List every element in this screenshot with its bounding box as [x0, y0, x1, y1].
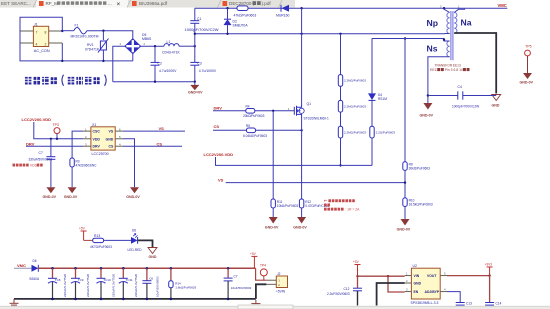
svg-text:10kΩ/PuF0603: 10kΩ/PuF0603	[277, 204, 299, 208]
wire R11 to ground	[272, 208, 274, 217]
svg-text:GND: GND	[106, 137, 114, 141]
svg-text:TC9: TC9	[78, 278, 84, 282]
wire R10 to ground	[404, 207, 406, 220]
capacitor C14	[485, 303, 494, 306]
svg-text:CS: CS	[157, 141, 163, 146]
wire clamp top rail	[195, 7, 508, 9]
junction C7b bottom	[227, 298, 230, 301]
svg-text:GND-0V: GND-0V	[420, 114, 434, 118]
wire VOUT down to C14	[489, 276, 491, 303]
junction VOUT node	[488, 274, 490, 276]
ground GND-0V under R11	[269, 217, 278, 224]
svg-text:220uF/6.3V/T520: 220uF/6.3V/T520	[86, 273, 90, 297]
junction C7 on VDD wire	[50, 138, 52, 140]
resistor R13	[93, 238, 104, 242]
svg-text:: 1R = 2A: : 1R = 2A	[345, 208, 360, 212]
svg-text:R5: R5	[246, 124, 250, 128]
test point TP5	[525, 44, 532, 73]
svg-text:30kΩ/PuF0603: 30kΩ/PuF0603	[409, 167, 431, 171]
junction clamp rail / drain riser	[300, 7, 302, 9]
junction TC10	[100, 267, 103, 270]
SECTION: bottomright	[327, 260, 502, 305]
pin 8 stub	[49, 30, 63, 32]
junction Ns return / C4	[427, 94, 429, 96]
junction R14 bottom	[170, 298, 173, 301]
resistor R1 on clamp rail	[237, 6, 248, 11]
svg-text:16.5kΩ/PuF0603: 16.5kΩ/PuF0603	[409, 203, 433, 207]
svg-text:R4: R4	[246, 105, 250, 109]
tab 4 pdf icon	[223, 1, 228, 6]
svg-text:).pdf: ).pdf	[262, 1, 272, 6]
junction source column	[300, 129, 302, 131]
svg-text:4.7u/1000V: 4.7u/1000V	[159, 69, 177, 73]
ground GND (open) under LED	[148, 248, 157, 254]
ground GND-0V under C7	[46, 187, 55, 193]
svg-text:220uF/6.3V/T520: 220uF/6.3V/T520	[112, 273, 116, 297]
diode D4 RS1M	[368, 93, 376, 100]
SECTION: controller	[13, 117, 186, 199]
TVS diode D2 SMBJ70A	[224, 8, 232, 34]
svg-text:RF_M: RF_M	[46, 1, 59, 6]
junction R14	[170, 267, 173, 270]
svg-text:8: 8	[45, 31, 47, 35]
junction bleeder to VDD rail	[339, 164, 341, 166]
svg-text:220uF/6.3V/T520: 220uF/6.3V/T520	[63, 273, 67, 297]
wire ground bus (black)	[14, 298, 256, 300]
wire VS rail	[226, 182, 405, 184]
capacitor TC10	[97, 268, 116, 299]
test point TP3	[53, 123, 61, 139]
svg-text:VDD: VDD	[30, 164, 38, 168]
junction TC9 bottom	[74, 298, 77, 301]
svg-text:GND-0V: GND-0V	[126, 195, 140, 199]
svg-text:2.2uF/50V/0603: 2.2uF/50V/0603	[327, 292, 350, 296]
resistor R12 sense	[299, 199, 303, 208]
svg-text:J2: J2	[277, 272, 281, 276]
wire drain rail to transformer primary	[195, 33, 445, 35]
wire GND down	[123, 139, 135, 188]
wire BYP to C13	[447, 292, 460, 303]
wire R3 bottom	[71, 167, 73, 187]
svg-text:GND-0V: GND-0V	[64, 195, 78, 199]
resistor R2a	[338, 75, 342, 87]
svg-text:C14: C14	[496, 301, 502, 305]
junction clamp rail / D2	[226, 7, 228, 9]
power port +3V3	[487, 267, 493, 276]
svg-text:330uF/50V/0603: 330uF/50V/0603	[29, 158, 53, 162]
svg-text:+5V: +5V	[250, 252, 257, 256]
IC X1 body	[91, 127, 115, 150]
svg-text:2.2MΩ/PuF0603: 2.2MΩ/PuF0603	[344, 130, 366, 134]
capacitor C13	[456, 303, 465, 306]
wire aux rectifier column	[371, 39, 373, 166]
junction HV node at C1 column	[194, 45, 196, 47]
wire CS to R5	[213, 129, 247, 131]
svg-text:2.2Ω/PuF0603: 2.2Ω/PuF0603	[376, 130, 396, 134]
junction +5V node	[356, 275, 358, 277]
SECTION: windowedge	[0, 305, 550, 309]
LED D6	[131, 234, 138, 244]
bridge rectifier D5 diamond	[125, 39, 141, 54]
tab 2 pdf icon	[39, 1, 44, 6]
svg-text:VS: VS	[109, 130, 114, 134]
svg-text:VIN: VIN	[414, 274, 420, 278]
wire Np bottom	[445, 33, 450, 35]
svg-text:47kΩ/0603/NC: 47kΩ/0603/NC	[76, 164, 98, 168]
svg-text:CD43-471K: CD43-471K	[162, 51, 180, 55]
diode D6 B340A	[32, 265, 39, 272]
svg-text:GND: GND	[414, 282, 422, 286]
tab separators	[33, 0, 282, 8]
svg-text:4.7u/1000V: 4.7u/1000V	[199, 69, 217, 73]
SECTION: clamp	[185, 3, 508, 103]
resistor R2c	[338, 126, 342, 138]
wire R4 to gate	[255, 110, 294, 112]
resistor R11	[271, 199, 275, 208]
ground GND-0V under Ns return	[423, 103, 432, 110]
transformer core	[451, 11, 453, 60]
test point TP4	[260, 263, 267, 280]
resistor R2b	[338, 100, 342, 112]
IC X1 pin stubs	[83, 131, 123, 146]
svg-text:F1: F1	[75, 23, 79, 27]
junction Ns top	[443, 39, 445, 41]
wire bridge + output to L1	[141, 45, 164, 47]
wire CSC to R3	[72, 131, 83, 158]
wire negative rail	[113, 81, 195, 83]
svg-text:Q1: Q1	[307, 102, 312, 106]
junction TC11	[122, 267, 125, 270]
SECTION: topleft	[20, 17, 217, 94]
svg-text:C13: C13	[466, 301, 472, 305]
junction HV wire at C2 column	[154, 45, 156, 47]
wire U2 GND thick	[377, 283, 405, 306]
power port +5V (regulator)	[355, 265, 361, 277]
ground GND-0V under X1	[130, 187, 139, 193]
wire ground bus to J2-2	[256, 284, 267, 299]
SECTION: bottomleft	[10, 227, 288, 307]
resistor R9	[403, 162, 407, 171]
svg-text:SPX3819M5-L-3.3: SPX3819M5-L-3.3	[411, 301, 439, 305]
wire R5 to source column	[256, 129, 302, 131]
junction negative rail at C3	[194, 81, 196, 83]
svg-text:LED-RED: LED-RED	[128, 248, 143, 252]
svg-text:C3: C3	[197, 61, 201, 65]
note 可能的靠近VDD引脚 drawn as blobs	[13, 164, 43, 168]
svg-text:D6: D6	[132, 228, 136, 232]
junction TP3 on VDD wire	[56, 138, 58, 140]
wire C4 row	[428, 95, 496, 97]
svg-text:STD2DN0LM60-1: STD2DN0LM60-1	[304, 117, 330, 121]
wire RV1 top	[102, 31, 104, 40]
svg-text:C7: C7	[234, 274, 238, 278]
svg-text:C6: C6	[149, 277, 153, 281]
capacitor C4	[458, 91, 463, 99]
svg-text:C1: C1	[197, 17, 201, 21]
svg-text:TP4: TP4	[260, 263, 266, 267]
svg-text:×: ×	[117, 1, 121, 8]
svg-text:C2: C2	[158, 61, 162, 65]
junction C7b	[227, 267, 230, 270]
svg-text:+5VIN: +5VIN	[276, 289, 286, 293]
wire CS out	[123, 145, 182, 147]
pin stub J2-2	[266, 283, 276, 285]
MOSFET Q1	[294, 103, 304, 118]
ground GND-0V under R3	[68, 187, 77, 193]
earth ground at bus right	[251, 300, 260, 307]
junction TC9	[74, 267, 77, 270]
svg-text:VS: VS	[159, 126, 165, 131]
svg-text:GND-0V: GND-0V	[265, 226, 279, 230]
svg-text:CS: CS	[214, 124, 220, 129]
junction drain rail / bleeder column	[339, 33, 341, 35]
wire EN branch	[388, 276, 405, 292]
svg-text:+3V3: +3V3	[485, 263, 493, 267]
svg-text:TC8: TC8	[55, 278, 61, 282]
svg-text:2.2MΩ/PuF0603: 2.2MΩ/PuF0603	[344, 104, 366, 108]
svg-text:LCC2V200-VDD: LCC2V200-VDD	[204, 152, 234, 157]
title 强电接口（载波接口） drawn as glyph blocks	[25, 75, 107, 86]
svg-text:RS1M: RS1M	[378, 97, 387, 101]
wire DRV to R4	[213, 110, 246, 112]
capacitor C12	[353, 276, 362, 305]
resistor R3	[70, 158, 74, 167]
svg-text:TP5: TP5	[525, 44, 531, 48]
inductor L1	[164, 44, 179, 47]
ground GND (open)	[492, 95, 501, 101]
resistor R5	[247, 128, 256, 133]
wire Np top	[444, 8, 450, 12]
svg-text:VDD: VDD	[93, 137, 101, 141]
junction TC8	[51, 267, 54, 270]
pin stub J2-1	[266, 279, 276, 281]
svg-text:AC_CON: AC_CON	[34, 49, 50, 53]
svg-text:MB6S: MB6S	[142, 37, 152, 41]
svg-text:GND-0V: GND-0V	[397, 228, 411, 232]
status box	[238, 305, 293, 309]
power port +5V (LED)	[81, 231, 87, 240]
resistor R14	[169, 268, 197, 299]
wire bridge bottom stub	[132, 54, 134, 61]
regulator U2 body	[411, 268, 440, 299]
wire VS out	[123, 130, 185, 132]
svg-text:+5V: +5V	[353, 260, 360, 264]
wire R12 to ground	[301, 208, 303, 217]
wire bleeder column	[340, 34, 342, 166]
junction EN branch	[387, 275, 389, 277]
junction at RV1 bottom	[102, 60, 104, 62]
svg-text:LCC25700: LCC25700	[92, 152, 109, 156]
svg-text:220uF/6.3V/T520: 220uF/6.3V/T520	[134, 273, 138, 297]
svg-text:DRV: DRV	[26, 141, 35, 146]
wire LED to GND thick	[138, 240, 153, 247]
junction at connector top right	[61, 30, 63, 32]
pin 4 stub	[20, 42, 33, 44]
junction C6 bottom	[146, 298, 149, 301]
capacitor C2	[151, 46, 160, 81]
svg-text:10uF/25V/0603: 10uF/25V/0603	[156, 276, 160, 297]
tab 3 pdf icon	[132, 1, 137, 6]
svg-text:GND-0V: GND-0V	[293, 226, 307, 230]
ground GND-0V under TP5	[523, 73, 532, 79]
wire aux column joins VDD rail	[371, 164, 373, 165]
junction negative rail at C2	[154, 81, 156, 83]
SECTION: tabbar	[0, 0, 295, 8]
wire R13 to LED	[104, 239, 131, 241]
svg-text:TP3: TP3	[53, 123, 59, 127]
wire VDD rail	[216, 157, 373, 165]
svg-text:07D471K: 07D471K	[85, 47, 100, 51]
junction divider tap	[404, 181, 406, 183]
svg-text:GND: GND	[149, 255, 157, 259]
junction C6	[146, 267, 149, 270]
wire bridge minus to rail	[113, 46, 125, 81]
wire +5V to R13	[84, 239, 93, 241]
junction TC11 bottom	[122, 298, 125, 301]
wire Na top to VMC rail	[454, 8, 464, 12]
wire AC bottom rail to bridge	[62, 60, 133, 62]
junction drain rail at D2	[226, 33, 228, 35]
wire AC loop around connector	[20, 17, 62, 61]
svg-text:TC11: TC11	[126, 278, 133, 282]
svg-text:TRANSFOR EE13: TRANSFOR EE13	[435, 63, 461, 67]
earth ground at bus left	[10, 299, 19, 307]
svg-text:VS: VS	[218, 178, 224, 183]
wire red bus corner to J2-1	[256, 268, 267, 280]
svg-text:10uF/50V/0603: 10uF/50V/0603	[231, 286, 252, 290]
power port +5V (bus)	[251, 256, 257, 268]
resistor R8	[370, 126, 374, 138]
svg-text:MUR160: MUR160	[276, 13, 289, 17]
wire L1 to C1 column	[179, 45, 195, 47]
junction drain rail / drain riser	[300, 33, 302, 35]
svg-text:6.04kΩ/PuF0603: 6.04kΩ/PuF0603	[243, 134, 267, 138]
wire divider column upper	[404, 39, 406, 162]
svg-text:C12: C12	[344, 287, 350, 291]
wire VDD drop	[34, 122, 83, 139]
varistor RV1	[98, 39, 109, 53]
svg-text:20kΩ/PuF0603: 20kΩ/PuF0603	[243, 114, 265, 118]
svg-text:GND: GND	[492, 104, 500, 108]
junction drain rail at C1 column	[194, 33, 196, 35]
svg-text:C7: C7	[39, 151, 43, 155]
wire source column	[301, 118, 303, 199]
wire +5V to VIN	[358, 275, 405, 277]
wire Ns bottom	[428, 57, 450, 103]
junction at RV1 top	[102, 30, 104, 32]
svg-text:Pin 3 6 8 10: Pin 3 6 8 10	[445, 68, 463, 72]
wire VOUT red	[447, 275, 490, 277]
winding Na	[454, 13, 457, 34]
junction at connector bottom right	[61, 60, 63, 62]
svg-text:ADJ/BYP: ADJ/BYP	[425, 290, 440, 294]
svg-text:DEC28700 (: DEC28700 (	[229, 1, 255, 6]
wire junction to fuse	[62, 30, 74, 32]
svg-text:R13: R13	[94, 234, 100, 238]
capacitor C7b filter	[224, 268, 252, 299]
svg-text:+5V: +5V	[79, 227, 86, 231]
svg-text:VMC: VMC	[17, 263, 26, 268]
capacitor C1	[190, 8, 199, 46]
svg-text:47kΩ/PuF0603: 47kΩ/PuF0603	[234, 14, 257, 18]
wire drain riser	[301, 8, 303, 102]
diode D1 MUR160	[281, 5, 289, 12]
SECTION: transformer	[372, 5, 534, 118]
svg-text:X1: X1	[92, 123, 96, 127]
capacitor C3	[190, 46, 199, 81]
svg-text:MF2010F1.000TM: MF2010F1.000TM	[71, 35, 99, 39]
svg-text:4: 4	[36, 42, 38, 46]
winding Ns	[447, 41, 450, 57]
svg-text:VOUT: VOUT	[427, 274, 437, 278]
capacitor TC11	[119, 268, 138, 299]
svg-text:DRV: DRV	[214, 105, 223, 110]
junction primary top on VMC rail	[443, 7, 445, 9]
svg-text:BIU3966a.pdf: BIU3966a.pdf	[139, 1, 168, 6]
junction TC10 bottom	[100, 298, 103, 301]
wire gate pulldown column	[272, 111, 274, 199]
svg-text:2: 2	[45, 42, 47, 46]
note 此电阻为电流感测电阻 drawn as blobs	[324, 199, 360, 211]
ground GND-0V under R12	[297, 217, 306, 224]
pin 7 stub	[20, 30, 33, 32]
svg-text:GND-0V: GND-0V	[520, 81, 534, 85]
wire +5V red bus	[38, 267, 255, 269]
bridge white separation cross	[126, 40, 139, 52]
svg-text:D6: D6	[33, 259, 37, 263]
part text EE13立式 Pin 3 6 8 10 接脚	[430, 68, 470, 72]
svg-text:Ns: Ns	[427, 44, 438, 54]
svg-text:CSC: CSC	[93, 130, 101, 134]
wire DRV to X1	[26, 145, 83, 147]
svg-text:Np: Np	[427, 18, 438, 28]
svg-text:1000pF/700V/C2W: 1000pF/700V/C2W	[185, 27, 219, 32]
connector J1 AC_CON body	[33, 26, 48, 46]
svg-text:B340A: B340A	[30, 277, 40, 281]
wire R9 to tap	[404, 170, 406, 198]
connector J2 body	[276, 276, 287, 288]
SECTION: middle	[204, 34, 433, 232]
capacitor TC9	[71, 268, 90, 299]
wire Ns top to aux column	[372, 39, 450, 42]
resistor R10	[403, 198, 407, 207]
junction TC8 bottom	[51, 298, 54, 301]
svg-text:...: ...	[108, 1, 112, 6]
ground GND-0V under R10	[401, 219, 410, 226]
svg-text:C4: C4	[458, 85, 462, 89]
capacitor TC8	[48, 268, 67, 299]
svg-text:EE13: EE13	[430, 68, 438, 72]
window bottom strip	[0, 306, 550, 309]
svg-text:EET SEARC...: EET SEARC...	[1, 1, 31, 6]
svg-text:SMBJ70A: SMBJ70A	[233, 24, 249, 28]
svg-text:EN: EN	[414, 290, 419, 294]
svg-text:L1: L1	[167, 40, 171, 44]
wire Na bottom thick to GND	[454, 33, 496, 94]
junction gate column	[272, 110, 274, 112]
wire fuse to bridge top	[87, 31, 133, 39]
svg-text:4K7Ω/PuF0603: 4K7Ω/PuF0603	[90, 245, 112, 249]
pin 2 stub	[49, 42, 63, 44]
svg-text:1.6kΩ/PuF0603: 1.6kΩ/PuF0603	[175, 285, 196, 289]
svg-text:LCC2V200-VDD: LCC2V200-VDD	[22, 117, 52, 122]
svg-text:TC10: TC10	[103, 278, 111, 282]
tab bar background	[0, 0, 295, 8]
svg-text:GND=0V: GND=0V	[188, 90, 203, 94]
svg-text:VMC: VMC	[498, 3, 507, 8]
winding Np	[447, 13, 450, 34]
wire RV1 bottom	[102, 50, 104, 61]
